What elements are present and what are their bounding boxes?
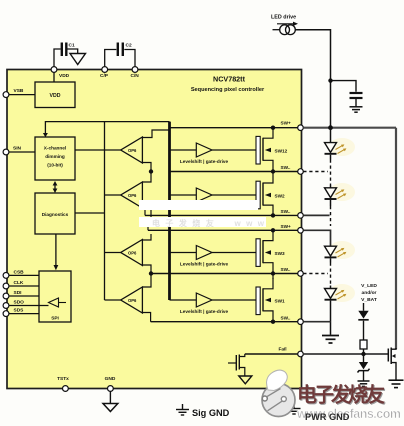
svg-text:电子发烧友: 电子发烧友: [297, 383, 385, 407]
white patch strip 2: [139, 217, 266, 227]
wire tap SW2: [303, 214, 329, 216]
op-amp OP2: [121, 182, 143, 208]
svg-text:SW..: SW..: [281, 165, 291, 170]
wire SW+ to right rail: [303, 127, 396, 129]
svg-text:(10-bit): (10-bit): [47, 163, 63, 168]
node cap tap: [328, 78, 332, 82]
wire SW+ to LED1: [330, 128, 332, 143]
arrow (LED drive direction): [277, 23, 294, 25]
wire Diagnostics to rail: [75, 212, 105, 214]
buffer ch4: [196, 293, 212, 307]
wire to C3: [331, 81, 357, 92]
Diagnostics box: [35, 193, 75, 234]
buffer ch3: [196, 246, 212, 260]
svg-text:OP6: OP6: [128, 298, 137, 303]
wire C/P pin to C2: [105, 50, 117, 70]
ground (Q6 source): [389, 380, 404, 387]
LED glow blobs: [329, 138, 355, 302]
svg-text:OP6: OP6: [128, 193, 137, 198]
wire tap SW1: [303, 321, 330, 323]
svg-text:V_LED: V_LED: [361, 283, 377, 289]
VDD regulator box: [35, 82, 75, 108]
svg-text:SW12: SW12: [275, 149, 288, 154]
gate wire ch4: [170, 299, 197, 301]
pin SDS: [3, 311, 9, 317]
wire VDD pin to VDD box: [53, 72, 55, 82]
svg-text:SIN: SIN: [13, 146, 22, 152]
wire top distribution to levelshift bus: [45, 122, 169, 136]
transistor SW1: [256, 287, 260, 315]
wire tap SW+ bank2 to LED3: [303, 230, 330, 246]
buffer SDO: [49, 298, 59, 307]
light arrows D4: [336, 290, 347, 299]
LED D4: [330, 286, 332, 289]
ground (fail FET): [239, 376, 252, 384]
op-amp OP1: [121, 137, 143, 163]
buffer ch2: [196, 188, 212, 202]
light arrows D3: [336, 248, 347, 257]
pin SW+ bank2: [298, 228, 304, 234]
wire to OP2: [142, 172, 151, 183]
ground (GND pin): [103, 404, 118, 412]
light arrows D1: [336, 144, 347, 153]
pin SW+: [298, 125, 304, 131]
wire SDI: [9, 295, 39, 297]
wire VSB to VDD box: [9, 94, 35, 96]
svg-text:C/N: C/N: [131, 73, 140, 79]
pin SW3 node: [298, 271, 304, 277]
wire OP3 bottom hook: [142, 265, 151, 274]
svg-text:SW..: SW..: [281, 209, 291, 214]
capacitor C1: [62, 43, 67, 57]
node row SW12 node: [170, 171, 298, 173]
wire OP3 top hook: [142, 234, 151, 240]
svg-text:SW2: SW2: [275, 194, 286, 199]
ground (C1): [70, 54, 86, 65]
node row SW+ bank2: [148, 229, 298, 231]
wire VDD pin to C1: [54, 49, 61, 69]
node row SW1 node: [151, 321, 298, 323]
wire FET4 drain continuation: [272, 274, 274, 280]
wire dashed D3-D4: [330, 263, 332, 286]
wire CSB: [9, 274, 39, 276]
transistor fail output (internal): [228, 362, 236, 364]
wire dashed D1-D2: [330, 160, 332, 186]
svg-text:SPI: SPI: [51, 316, 59, 321]
pin VSB: [3, 92, 9, 98]
pin SDI: [3, 293, 9, 299]
svg-text:VDD: VDD: [50, 93, 61, 99]
svg-text:LED drive: LED drive: [271, 15, 296, 21]
op-amp OP4: [121, 287, 143, 313]
pin GND: [108, 386, 114, 392]
node row SW2 node: [145, 214, 298, 216]
pin C/P: [102, 67, 108, 73]
wire source to SW+ rail: [295, 30, 330, 127]
svg-text:SW+: SW+: [281, 121, 292, 126]
ground (zener): [358, 381, 370, 386]
capacitor C3: [350, 93, 363, 98]
arrow X-channel to Diagnostics: [54, 184, 56, 190]
svg-text:Sequencing pixel controller: Sequencing pixel controller: [191, 87, 265, 93]
svg-text:VDD: VDD: [59, 73, 70, 79]
node row SW+: [170, 127, 298, 129]
wire resistor to fail node: [363, 349, 365, 362]
wire C1 to ground: [68, 49, 78, 54]
current source LED drive: [273, 29, 280, 31]
svg-text:Levelshift | gate-drive: Levelshift | gate-drive: [180, 309, 229, 314]
svg-text:C2: C2: [126, 43, 132, 49]
svg-text:dimming: dimming: [45, 154, 65, 159]
ground symbol Sig GND: [176, 404, 189, 415]
svg-text:SW..: SW..: [281, 315, 291, 320]
node row SW3 node: [151, 273, 298, 275]
wire to OP4: [142, 274, 151, 288]
node left rail: [104, 122, 106, 300]
transistor SW3: [256, 239, 260, 267]
svg-text:CSB: CSB: [14, 270, 25, 276]
pin TSTx: [63, 386, 69, 392]
diode D5: [358, 311, 368, 319]
pin SW2 node: [298, 213, 304, 219]
transistor SW2: [256, 181, 260, 209]
pin SW1 node: [298, 319, 304, 325]
pin C/N: [132, 67, 138, 73]
wire right rail: [395, 128, 397, 349]
op-amp OP3: [121, 240, 143, 266]
gate wire ch3: [170, 252, 197, 254]
gate wire ch2: [170, 194, 197, 196]
svg-text:V_BAT: V_BAT: [361, 297, 377, 303]
wire C2 to C/N pin: [124, 50, 135, 70]
wire OP2 bottom hook: [142, 208, 151, 227]
LED D3: [325, 246, 337, 256]
pin VDD: [51, 67, 57, 73]
wire SDO: [9, 305, 49, 307]
svg-text:TSTx: TSTx: [57, 376, 69, 382]
wire SIN to X-channel box: [9, 151, 35, 153]
zener D6: [359, 362, 368, 369]
light arrows D2: [336, 189, 347, 198]
watermark logo elecfans: [262, 370, 295, 416]
svg-text:SW3: SW3: [275, 251, 286, 256]
pin SW12 node: [298, 169, 304, 175]
capacitor C2: [118, 43, 123, 57]
svg-text:电子发烧友 www: 电子发烧友 www: [152, 218, 265, 228]
svg-text:Sig GND: Sig GND: [192, 408, 230, 418]
svg-text:Levelshift | gate-drive: Levelshift | gate-drive: [180, 159, 229, 164]
IC body NCV7682: [7, 70, 302, 389]
svg-text:NCV782tt: NCV782tt: [213, 75, 246, 84]
pin CLK: [3, 283, 9, 289]
transistor SW12: [256, 136, 260, 164]
wire dashed tap SW12: [303, 171, 328, 173]
wire V_BAT to diode: [363, 303, 365, 311]
white patch strip 1: [139, 200, 258, 210]
LED D1: [325, 143, 337, 153]
gate wire ch1: [170, 149, 197, 151]
wire SDS: [9, 313, 39, 315]
resistor R1: [360, 340, 367, 349]
svg-text:OP6: OP6: [128, 251, 137, 256]
pin CSB: [3, 273, 9, 279]
svg-text:C1: C1: [69, 43, 75, 49]
svg-text:SDI: SDI: [14, 290, 23, 296]
svg-text:SW+: SW+: [281, 224, 292, 229]
svg-text:OP6: OP6: [128, 148, 137, 153]
pin SIN: [3, 149, 9, 155]
svg-text:C/P: C/P: [100, 73, 109, 79]
svg-text:SW..: SW..: [281, 267, 291, 272]
wire OP1 top hook: [142, 130, 169, 138]
wire dashed D2-D3: [330, 206, 332, 226]
ground (LED chain): [322, 336, 339, 344]
svg-text:X-channel: X-channel: [44, 146, 66, 151]
wire diode to resistor: [363, 321, 365, 340]
svg-text:Diagnostics: Diagnostics: [42, 212, 69, 217]
wire OP1 bottom hook: [142, 163, 151, 172]
svg-text:SDO: SDO: [14, 300, 25, 306]
wire X-channel box to rail: [75, 149, 105, 151]
svg-text:SW1: SW1: [275, 299, 286, 304]
svg-text:Fail: Fail: [279, 347, 287, 352]
bus levelshift supply: [168, 122, 171, 300]
wire CLK: [9, 285, 39, 287]
svg-text:SDS: SDS: [14, 308, 25, 314]
arrow Diagnostics to SPI: [55, 235, 57, 268]
svg-text:CLK: CLK: [14, 280, 24, 286]
wire fail row: [245, 353, 298, 355]
wire Fail line external: [303, 353, 388, 355]
ground (C3): [350, 107, 363, 112]
svg-text:and/or: and/or: [362, 290, 377, 296]
buffer ch1: [196, 143, 212, 157]
svg-text:PWR GND: PWR GND: [305, 412, 350, 422]
wire dashed tap SW3: [303, 273, 328, 275]
SPI box: [39, 271, 71, 322]
svg-text:VSB: VSB: [14, 88, 24, 94]
ground symbol PWR GND: [288, 403, 301, 414]
LED D2: [330, 185, 332, 188]
svg-text:Levelshift | gate-drive: Levelshift | gate-drive: [180, 262, 229, 267]
wire GND pin down: [109, 391, 111, 403]
pin SDO: [3, 303, 9, 309]
wire OP4 bottom hook: [142, 313, 150, 322]
X-channel dimming box: [35, 137, 75, 180]
svg-text:GND: GND: [105, 376, 116, 382]
pin Fail: [298, 351, 304, 357]
transistor Q6 external fail switch: [387, 349, 389, 362]
